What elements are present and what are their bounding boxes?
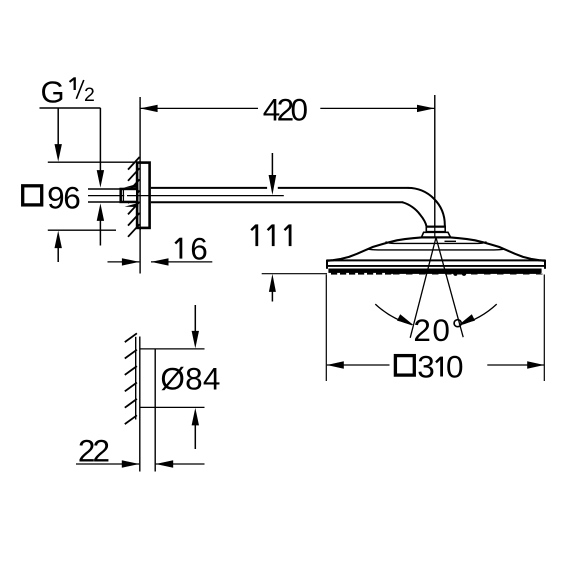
- svg-text:6: 6: [190, 231, 208, 267]
- svg-text:20°: 20°: [413, 312, 465, 348]
- svg-text:96: 96: [47, 179, 80, 215]
- svg-text:0: 0: [446, 349, 464, 385]
- svg-text:Ø84: Ø84: [160, 361, 220, 397]
- svg-text:3: 3: [417, 349, 435, 385]
- svg-text:420: 420: [263, 92, 308, 128]
- svg-text:G: G: [41, 74, 65, 109]
- svg-text:22: 22: [78, 433, 109, 469]
- svg-text:2: 2: [84, 84, 95, 106]
